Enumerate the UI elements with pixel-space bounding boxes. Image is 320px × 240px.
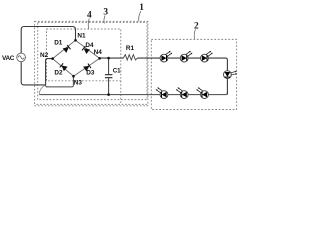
svg-text:3: 3 (103, 8, 108, 18)
svg-text:D2: D2 (54, 70, 63, 77)
svg-text:VAC: VAC (2, 55, 15, 62)
svg-text:N1: N1 (77, 32, 86, 39)
node N4 dot (98, 57, 101, 60)
svg-text:R1: R1 (126, 45, 135, 52)
diode D3 (83, 63, 91, 71)
diode D4 (82, 46, 90, 54)
svg-text:D1: D1 (54, 39, 63, 46)
capacitor C1 (105, 58, 113, 95)
LED L1 (160, 51, 172, 62)
svg-text:C1: C1 (113, 67, 121, 74)
LED L5 (bottom row, pointing left) (196, 87, 208, 98)
LED L3 (201, 51, 213, 62)
node N3 dot (72, 75, 75, 78)
wire N2 down (46, 59, 53, 85)
svg-text:N2: N2 (40, 52, 49, 59)
diode D2 (60, 63, 68, 71)
wire N3 down to junction (45, 76, 73, 87)
dashed inner bottom edge line (37, 103, 148, 105)
wire junction curve down to bottom rail (39, 85, 45, 94)
box 4 (rectifier dashed enclosure) (47, 29, 121, 81)
box 3 (driver module dashed enclosure) (38, 22, 147, 99)
LED L6 (176, 87, 188, 98)
leader for label 4 (88, 18, 89, 28)
leader for label 3 (104, 16, 105, 24)
svg-text:D3: D3 (86, 70, 95, 77)
LED L4 (right column, pointing down) (224, 71, 237, 79)
dashed divider vertical (right of rectifier box down to module bottom) (120, 81, 122, 104)
LED L7 (156, 87, 168, 98)
box 2 (LED array dashed enclosure) (151, 39, 236, 109)
wire VAC bottom to N2 junction (21, 62, 45, 85)
svg-text:4: 4 (87, 11, 92, 21)
junction dot C1 top (107, 57, 110, 60)
svg-text:N3: N3 (74, 79, 83, 86)
svg-text:N4: N4 (94, 49, 103, 56)
diode D1 (63, 45, 71, 53)
svg-text:2: 2 (194, 22, 199, 32)
box 1 (outer dashed enclosure) (35, 21, 148, 105)
junction dot C1 bottom (107, 93, 110, 96)
leader for label 1 (139, 11, 141, 21)
wire N4 output rail to LED box (100, 58, 228, 95)
svg-text:D4: D4 (85, 42, 94, 49)
node N2 dot (51, 57, 54, 60)
AC source VAC (17, 53, 26, 62)
LED L2 (180, 51, 192, 62)
leader for label 2 (194, 29, 195, 39)
bridge rectifier diamond (53, 40, 100, 76)
bottom rail (39, 92, 227, 95)
wire VAC top to N1 (21, 27, 75, 54)
resistor R1 (123, 55, 137, 60)
node N1 dot (74, 39, 77, 42)
svg-text:1: 1 (139, 3, 144, 13)
